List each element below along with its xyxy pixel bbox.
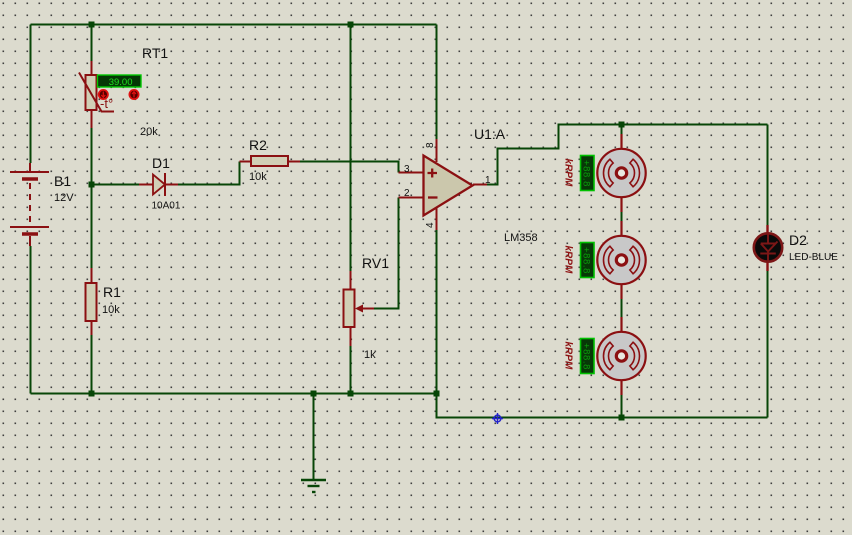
wire ground stem [313,394,315,480]
junction top bus RV1 [348,22,354,28]
motor M1 display [581,156,595,191]
wire opamp output net [486,125,768,185]
svg-text:kRPM: kRPM [563,159,574,187]
svg-text:RT1: RT1 [142,45,168,61]
wire right rail top [767,125,769,226]
wire D1 row left [92,184,140,186]
wire right rail bottom [767,271,769,418]
svg-text:kRPM: kRPM [563,246,574,274]
wire R1 column bottom [91,335,93,394]
svg-text:20k: 20k [140,126,158,138]
motor M3 [597,317,645,395]
wire motor column seg2 [621,212,623,221]
wire RT1 column top [91,25,93,62]
junction bottom bus R1 [89,391,95,397]
op-amp U1:A [399,139,488,230]
ground [301,480,326,492]
svg-text:3: 3 [404,164,410,175]
svg-text:+88.8: +88.8 [581,247,592,274]
svg-text:8: 8 [425,142,436,148]
wire R1 column top [91,185,93,269]
battery B1 [10,163,49,246]
svg-text:R1: R1 [103,284,121,300]
junction bottom bus RV1 [348,391,354,397]
svg-text:+88.8: +88.8 [581,343,592,370]
wire motor column seg1 [621,125,623,135]
wire pin2 to RV1 wiper [374,198,399,309]
resistor R2 [240,156,301,166]
svg-text:1k: 1k [364,349,376,361]
wire RT1 column bottom [91,128,93,185]
wire bottom right bus [437,394,768,418]
motor M1 [597,134,645,212]
motor M2 [597,221,645,299]
wire RV1 column top [350,25,352,272]
RT1 display [98,75,142,88]
junction top bus RT1 [89,22,95,28]
wire top bus [31,24,437,26]
svg-text:kRPM: kRPM [563,342,574,370]
LED D2 [754,225,782,271]
origin marker [492,413,503,424]
wire pin4 column [436,230,438,394]
junction bottom bus corner [434,391,440,397]
RT1 down button [99,90,108,99]
wire D1 to R2 [178,162,240,185]
junction motor top [619,122,625,128]
wire R2 to pin3 [300,162,399,173]
svg-text:10k: 10k [249,171,267,183]
motor M3 display [581,339,595,374]
junction motor bottom [619,415,625,421]
diode D1 [139,173,178,196]
svg-text:LM358: LM358 [504,232,538,244]
svg-text:+88.8: +88.8 [581,160,592,187]
junction bottom bus ground [311,391,317,397]
svg-text:RV1: RV1 [362,255,389,271]
wire bottom bus [31,393,437,395]
svg-text:U1:A: U1:A [474,126,506,142]
svg-text:D2: D2 [789,232,807,248]
wire motor column seg3 [621,299,623,317]
resistor R1 [86,268,97,335]
svg-text:12V: 12V [54,192,74,204]
svg-text:4: 4 [425,222,436,228]
svg-text:2: 2 [404,188,410,199]
svg-text:10A01: 10A01 [152,201,181,212]
RT1 up button [129,90,138,99]
svg-text:B1: B1 [54,173,71,189]
wire left rail top [30,25,32,164]
svg-text:1: 1 [485,175,491,186]
wire motor column seg4 [621,395,623,418]
svg-text:39.00: 39.00 [109,77,133,88]
svg-text:LED-BLUE: LED-BLUE [789,252,838,263]
potentiometer RV1 [344,271,375,346]
motor M2 display [581,243,595,278]
junction D1 row [89,182,95,188]
svg-text:D1: D1 [152,155,170,171]
wire left rail bottom [30,246,32,394]
svg-text:R2: R2 [249,137,267,153]
wire pin8 column [436,25,438,140]
wire RV1 column bottom [350,346,352,394]
thermistor RT1 [79,61,114,128]
svg-text:-t°: -t° [100,96,113,111]
svg-text:10k: 10k [102,304,120,316]
